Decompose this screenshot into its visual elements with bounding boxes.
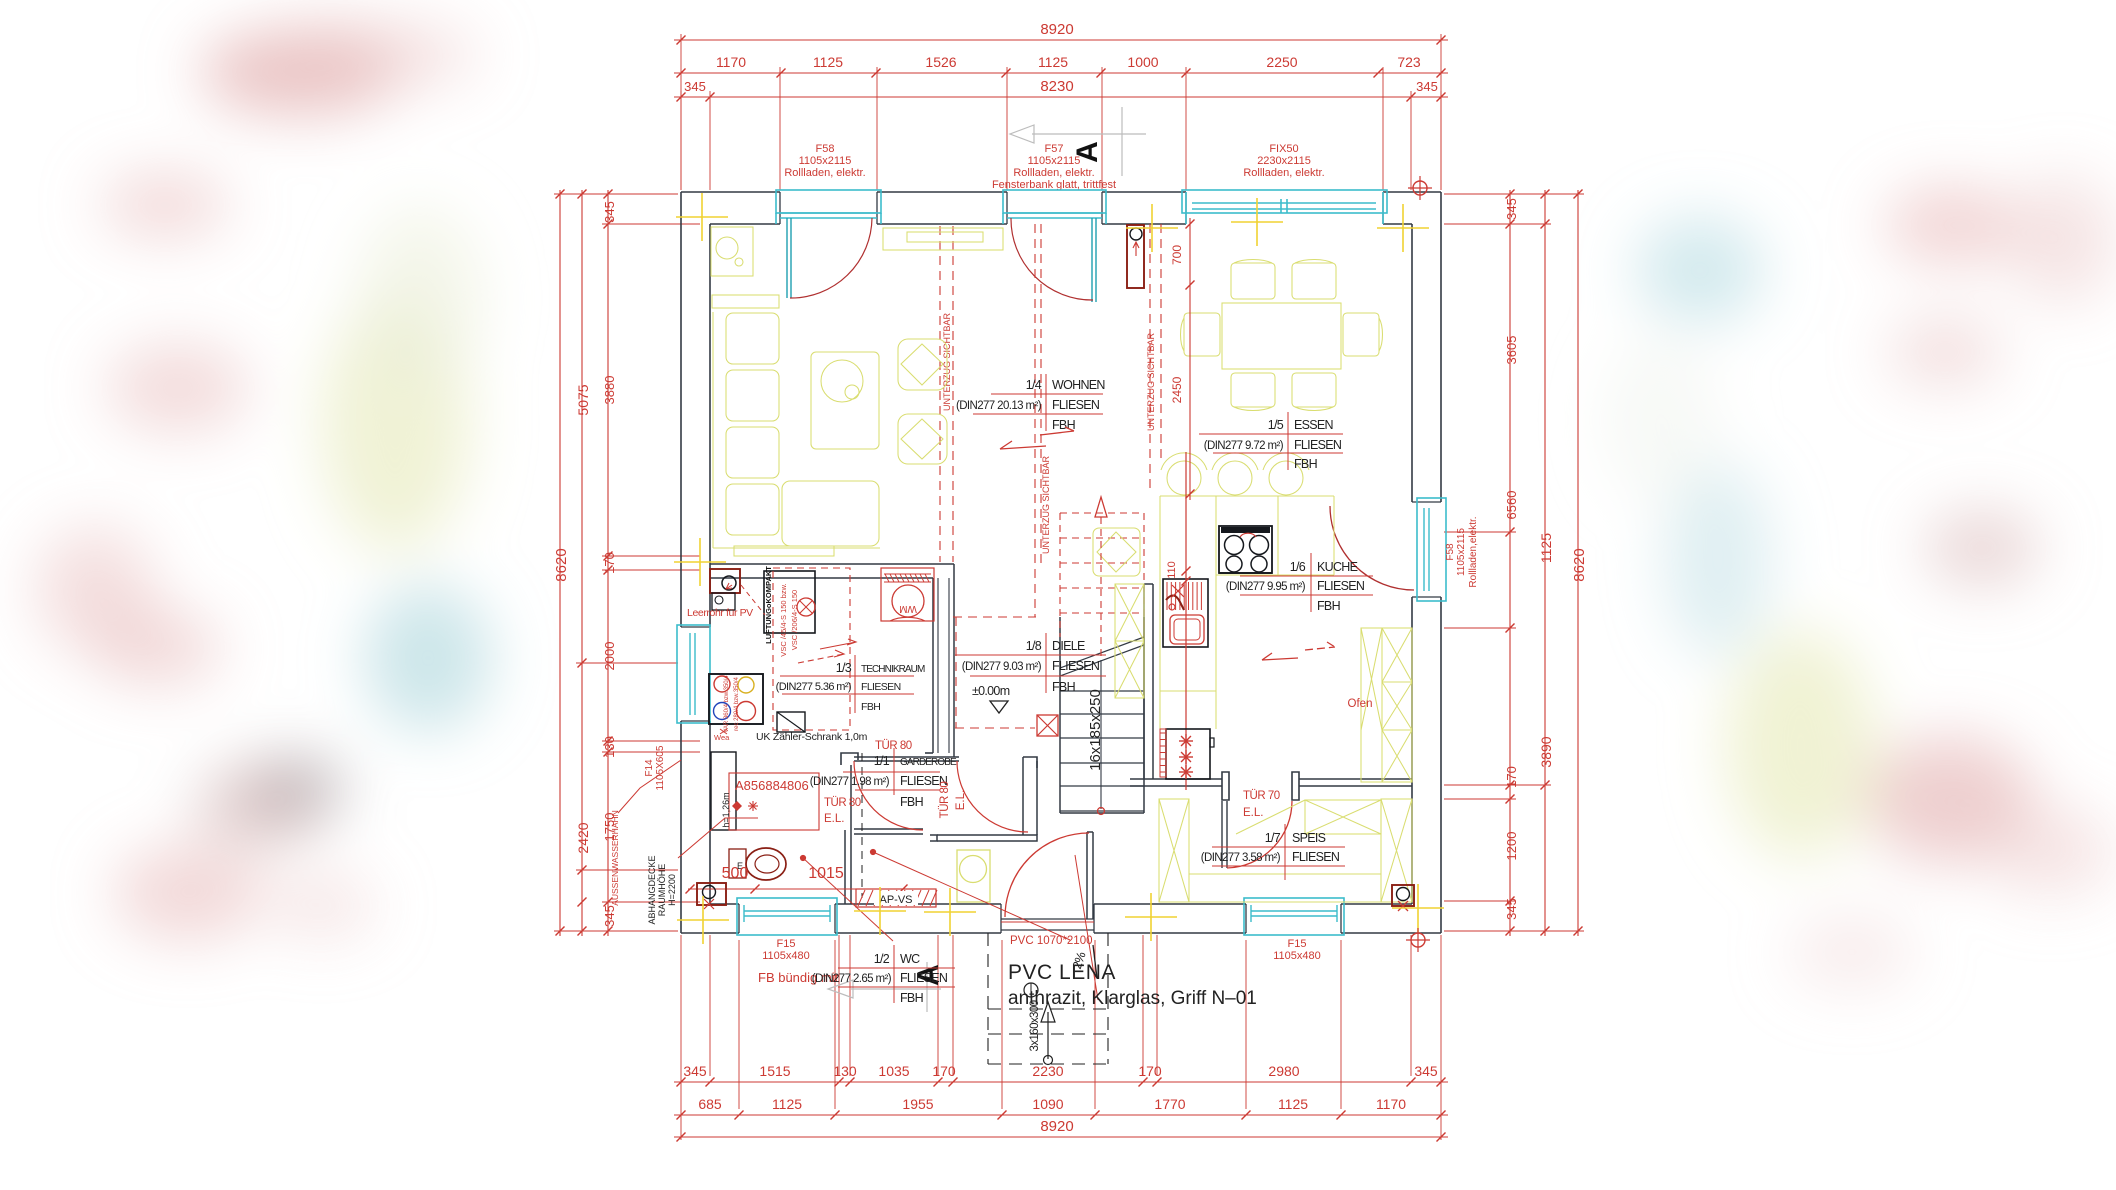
svg-text:3890: 3890 <box>1538 736 1554 767</box>
svg-text:TÜR 70: TÜR 70 <box>1243 790 1280 802</box>
svg-text:(DIN277 9.95 m²): (DIN277 9.95 m²) <box>1226 581 1306 593</box>
svg-text:GARDEROBE: GARDEROBE <box>900 757 957 768</box>
svg-text:2230: 2230 <box>1032 1063 1063 1079</box>
svg-text:110: 110 <box>1166 561 1178 579</box>
svg-text:1955: 1955 <box>902 1096 933 1112</box>
svg-text:TECHNIKRAUM: TECHNIKRAUM <box>861 664 925 675</box>
svg-text:Rollladen,elektr.: Rollladen,elektr. <box>1468 516 1479 587</box>
tv sideboard top wall <box>883 228 1003 250</box>
svg-text:FLIESEN: FLIESEN <box>1052 398 1100 412</box>
heat pump unit <box>709 674 763 724</box>
interior wall garderobe/diele <box>1022 757 1024 835</box>
interior wall vestibule top <box>937 834 1028 836</box>
svg-text:5075: 5075 <box>575 384 591 415</box>
svg-text:FLIESEN: FLIESEN <box>900 971 948 985</box>
svg-text:1125: 1125 <box>1538 533 1554 563</box>
svg-text:1/4: 1/4 <box>1026 378 1042 392</box>
svg-text:FLIESEN: FLIESEN <box>1052 659 1100 673</box>
svg-text:130: 130 <box>602 736 617 758</box>
stair outline <box>1059 617 1061 813</box>
red fixture label box <box>729 773 819 830</box>
sofa back line <box>712 312 714 548</box>
dining chair left <box>1184 313 1220 356</box>
svg-text:8620: 8620 <box>553 548 570 581</box>
svg-text:F58: F58 <box>1445 543 1456 561</box>
svg-text:1105x2115: 1105x2115 <box>799 155 852 167</box>
WC door leaf open <box>854 828 923 830</box>
svg-text:Rollladen, elektr.: Rollladen, elektr. <box>1243 167 1324 179</box>
sink red cross <box>1172 585 1184 597</box>
svg-text:1200: 1200 <box>1504 832 1519 861</box>
armchair 1 <box>898 339 947 390</box>
dimension line left 8620 <box>559 190 561 936</box>
garderobe-diele door swing arc <box>957 761 1028 832</box>
svg-text:F58: F58 <box>816 143 835 155</box>
svg-text:Rollladen, elektr.: Rollladen, elektr. <box>1013 167 1094 179</box>
svg-text:345: 345 <box>1416 79 1438 94</box>
dimension line right segments <box>1509 190 1511 936</box>
dimension line bottom segments row2 <box>674 1114 1448 1116</box>
stair upper flight dashed <box>1059 513 1061 637</box>
svg-text:FBH: FBH <box>861 701 880 713</box>
svg-text:1090: 1090 <box>1032 1096 1063 1112</box>
window F58 right wall (kitchen door-window) <box>1417 498 1446 601</box>
svg-text:345: 345 <box>683 1063 707 1079</box>
unterzug dashed right <box>1149 224 1151 491</box>
svg-text:1515: 1515 <box>759 1063 790 1079</box>
svg-text:1105x480: 1105x480 <box>1273 950 1321 962</box>
svg-text:Wea: Wea <box>714 733 730 742</box>
svg-text:130: 130 <box>833 1063 857 1079</box>
svg-text:(DIN277 1.98 m²): (DIN277 1.98 m²) <box>810 776 890 788</box>
svg-text:(DIN277 20.13 m²): (DIN277 20.13 m²) <box>956 400 1042 412</box>
speis shelf left <box>1159 799 1189 902</box>
svg-text:KUCHE: KUCHE <box>1317 560 1358 574</box>
svg-text:WM: WM <box>899 603 917 614</box>
exterior wall top outer <box>681 191 780 193</box>
meter cabinet small box <box>777 712 805 732</box>
floor drain bottom-left <box>697 883 726 905</box>
svg-text:1000: 1000 <box>1127 54 1158 70</box>
kitchen direction arrows <box>1262 653 1298 660</box>
dimension line left 5075/2420 <box>581 190 583 936</box>
stove <box>1219 526 1272 573</box>
speis door swing arc TUER70 <box>1227 801 1292 868</box>
window F15 bottom-right <box>1244 898 1344 935</box>
svg-text:LUFTUNGoKOMPAKT: LUFTUNGoKOMPAKT <box>764 566 773 644</box>
WC dashed axis line <box>861 753 863 898</box>
svg-text:(DIN277 2.65 m²): (DIN277 2.65 m²) <box>812 973 892 985</box>
svg-text:(DIN277 3.58 m²): (DIN277 3.58 m²) <box>1201 852 1281 864</box>
svg-text:FLIESEN: FLIESEN <box>1292 850 1340 864</box>
axis cross marks <box>676 216 728 218</box>
stair cut line <box>1060 645 1144 676</box>
garderobe door leaf (strikethrough line) <box>854 756 959 758</box>
coffee table <box>811 352 879 449</box>
hall wardrobe X-cabinet next to stair <box>1115 584 1144 698</box>
dining chairs bottom <box>1231 373 1275 407</box>
window F58 top-left <box>776 190 881 213</box>
svg-text:345: 345 <box>1504 898 1519 920</box>
svg-text:E.L.: E.L. <box>1243 807 1263 819</box>
sofa chaise <box>782 481 879 546</box>
kitchen counter lines <box>1160 495 1334 497</box>
dimension line left segments <box>607 190 609 936</box>
dining table <box>1222 303 1341 369</box>
svg-text:±0.00m: ±0.00m <box>972 684 1010 698</box>
svg-text:TÜR 80: TÜR 80 <box>824 797 861 809</box>
svg-text:FBH: FBH <box>1317 599 1341 613</box>
svg-text:3605: 3605 <box>1504 336 1519 365</box>
red leader door slope <box>1075 855 1098 1000</box>
svg-text:A856884806: A856884806 <box>735 778 809 793</box>
svg-text:FBH: FBH <box>900 795 924 809</box>
svg-text:700: 700 <box>1170 245 1184 265</box>
toilet <box>729 849 746 878</box>
svg-text:345: 345 <box>1414 1063 1438 1079</box>
kamin stove living corner <box>711 227 753 276</box>
svg-text:2450: 2450 <box>1170 376 1184 403</box>
svg-text:Fensterbank glatt, trittfest: Fensterbank glatt, trittfest <box>992 179 1116 191</box>
svg-text:Rollladen, elektr.: Rollladen, elektr. <box>784 167 865 179</box>
entrance threshold <box>1001 918 1094 920</box>
svg-text:1170: 1170 <box>1376 1096 1406 1112</box>
svg-text:F57: F57 <box>1045 143 1064 155</box>
svg-text:FBH: FBH <box>900 991 924 1005</box>
svg-text:PVC LENA: PVC LENA <box>1008 961 1116 984</box>
exterior wall bottom inner <box>710 903 739 905</box>
svg-text:3880: 3880 <box>602 376 617 405</box>
svg-text:ESSEN: ESSEN <box>1294 418 1334 432</box>
window F15 bottom-left <box>737 898 837 935</box>
svg-text:1/2: 1/2 <box>874 952 890 966</box>
survey crosshair top-right <box>1413 181 1427 195</box>
svg-text:UK Zähler-Schrank 1,0m: UK Zähler-Schrank 1,0m <box>756 731 868 743</box>
dimension line bottom 8920 <box>674 1136 1448 1138</box>
svg-text:(DIN277 9.03 m²): (DIN277 9.03 m²) <box>962 661 1042 673</box>
svg-text:2420: 2420 <box>575 822 591 853</box>
section mark A bottom <box>851 988 941 990</box>
stair walk line <box>1100 660 1102 809</box>
small meter box below <box>712 593 735 610</box>
interior wall living/technik <box>710 563 954 565</box>
interior wall technik bottom + garderobe door jambs <box>841 753 858 765</box>
svg-text:F15: F15 <box>777 938 796 950</box>
exterior wall left inner <box>709 224 711 627</box>
svg-text:H=2200: H=2200 <box>667 874 677 906</box>
svg-text:1035: 1035 <box>878 1063 909 1079</box>
window FIX50 top-right <box>1182 190 1387 213</box>
svg-text:1/3: 1/3 <box>836 661 852 675</box>
kitchen stools <box>1167 461 1201 495</box>
wall vent box <box>1127 225 1144 288</box>
svg-text:FLIESEN: FLIESEN <box>1294 438 1342 452</box>
exterior wall right inner <box>1411 224 1413 502</box>
speis shelf right column <box>1381 799 1412 902</box>
dining chair right <box>1343 313 1379 356</box>
svg-text:VAR 360/4 bzw.350/4: VAR 360/4 bzw.350/4 <box>724 675 730 733</box>
svg-text:ABHANGDECKE: ABHANGDECKE <box>647 855 657 924</box>
svg-text:WOHNEN: WOHNEN <box>1052 378 1105 392</box>
svg-text:16x185x250: 16x185x250 <box>1087 689 1104 771</box>
svg-text:FBH: FBH <box>1294 457 1318 471</box>
kitchen door-window swing arc <box>1330 506 1414 590</box>
washing machine WM <box>881 568 934 621</box>
sideboard left wall <box>712 295 779 308</box>
kitchen axis red line + 110 dim <box>1185 452 1187 790</box>
svg-text:FLIESEN: FLIESEN <box>861 681 901 693</box>
svg-text:h=1,26m: h=1,26m <box>721 792 731 827</box>
svg-text:WC: WC <box>900 952 920 966</box>
wohnen arrows <box>1000 441 1046 449</box>
vestibule washbasin <box>957 850 990 902</box>
red dashed leader corner <box>741 585 765 615</box>
svg-text:170: 170 <box>602 552 617 574</box>
exterior wall top inner <box>710 223 780 225</box>
dishwasher asterisks <box>1186 740 1193 742</box>
svg-text:rec 280/4 bzw.350/4: rec 280/4 bzw.350/4 <box>734 676 740 730</box>
faucet <box>1166 595 1184 610</box>
AP-VS hatched duct <box>856 889 936 907</box>
svg-text:2230x2115: 2230x2115 <box>1257 155 1311 167</box>
dim 700 + 2450 vertical <box>1189 218 1191 500</box>
svg-text:1170: 1170 <box>716 54 746 70</box>
svg-text:AUSSENWASSERHAHN: AUSSENWASSERHAHN <box>610 810 620 906</box>
ventilation unit dashed outline <box>773 568 850 730</box>
svg-text:AP-VS: AP-VS <box>879 894 912 906</box>
survey crosshair bottom-right <box>1411 933 1425 947</box>
svg-text:1105x480: 1105x480 <box>762 950 810 962</box>
svg-text:685: 685 <box>698 1096 722 1112</box>
svg-text:1125: 1125 <box>1278 1096 1308 1112</box>
svg-text:2980: 2980 <box>1268 1063 1299 1079</box>
porch dashed outline <box>987 933 989 1064</box>
ventilation unit box <box>764 571 815 633</box>
svg-text:1125: 1125 <box>813 54 843 70</box>
svg-text:345: 345 <box>602 905 617 927</box>
svg-text:TÜR 80: TÜR 80 <box>939 782 951 819</box>
svg-text:Leerrohr für PV: Leerrohr für PV <box>687 607 753 619</box>
svg-text:E.L.: E.L. <box>824 813 844 825</box>
svg-text:(DIN277 5.36 m²): (DIN277 5.36 m²) <box>776 681 851 693</box>
dishwasher <box>1166 729 1210 779</box>
svg-text:FLIESEN: FLIESEN <box>1317 579 1365 593</box>
interior wall WC right <box>844 830 846 904</box>
speis drain symbol bottom right <box>1392 885 1414 906</box>
entrance door swing arc <box>1005 833 1089 917</box>
svg-text:F15: F15 <box>1288 938 1307 950</box>
svg-text:1/7: 1/7 <box>1265 831 1281 845</box>
window F58 door leaf <box>786 218 788 298</box>
svg-text:1/5: 1/5 <box>1268 418 1284 432</box>
svg-text:1/8: 1/8 <box>1026 639 1042 653</box>
red supply air arrows <box>798 654 844 663</box>
svg-text:723: 723 <box>1397 54 1421 70</box>
section mark A top <box>1032 133 1146 135</box>
svg-text:345: 345 <box>684 79 706 94</box>
svg-text:8620: 8620 <box>1571 548 1588 581</box>
svg-text:1105x2115: 1105x2115 <box>1456 528 1467 576</box>
svg-text:1/6: 1/6 <box>1290 560 1306 574</box>
interior wall technik right / shaft <box>932 578 934 753</box>
window F57 swing arc <box>1011 218 1093 300</box>
window F58 swing arc <box>790 218 872 298</box>
dimension line top 8230 <box>674 96 1448 98</box>
svg-text:A: A <box>1071 141 1104 163</box>
svg-text:170: 170 <box>1138 1063 1162 1079</box>
svg-text:(DIN277 9.72 m²): (DIN277 9.72 m²) <box>1204 440 1284 452</box>
svg-text:RAUMHÖHE: RAUMHÖHE <box>657 864 667 917</box>
dimension line top total 8920 <box>674 39 1448 41</box>
stair treads <box>1060 690 1144 692</box>
window F57 top-middle <box>1003 190 1106 213</box>
svg-text:8920: 8920 <box>1040 21 1073 38</box>
wall opening jamb edges <box>779 192 781 224</box>
svg-text:UNTERZUG SICHTBAR: UNTERZUG SICHTBAR <box>1146 333 1156 432</box>
svg-text:1125: 1125 <box>772 1096 802 1112</box>
svg-text:E.L.: E.L. <box>955 790 967 810</box>
svg-text:1526: 1526 <box>925 54 956 70</box>
armchair 2 <box>898 414 947 464</box>
entrance door leaf <box>1086 832 1088 919</box>
dimension line bottom segments row1 <box>674 1081 1448 1083</box>
svg-text:FBH: FBH <box>1052 680 1076 694</box>
unterzug dashed left <box>1034 224 1036 617</box>
witness extension lines <box>680 34 682 190</box>
svg-text:VSC /45/4-S 150 bzw.: VSC /45/4-S 150 bzw. <box>779 583 788 656</box>
svg-text:8920: 8920 <box>1040 1118 1073 1135</box>
red leader entrance <box>871 850 876 855</box>
svg-text:170: 170 <box>932 1063 956 1079</box>
svg-text:UNTERZUG SICHTBAR: UNTERZUG SICHTBAR <box>1041 456 1051 555</box>
red leader to WC label <box>801 856 806 861</box>
speis door leaf <box>1221 801 1223 868</box>
speis shelf bottom <box>1189 873 1381 875</box>
svg-text:2250: 2250 <box>1266 54 1297 70</box>
svg-text:8230: 8230 <box>1040 78 1073 95</box>
unterzug dashed living/technik beam <box>939 226 941 562</box>
red X box symbol <box>1037 715 1058 736</box>
porch steps arrow <box>1047 1012 1049 1059</box>
svg-text:Ofen: Ofen <box>1348 698 1373 710</box>
WC vanity cabinet <box>711 752 736 830</box>
svg-text:2000: 2000 <box>602 642 617 671</box>
dimension line top segments <box>674 72 1448 74</box>
sink unit <box>1163 579 1208 647</box>
corner electrical box <box>710 569 740 593</box>
dining chairs top <box>1231 263 1275 299</box>
exterior wall right outer <box>1440 192 1442 502</box>
interior wall kitchen/hall <box>1143 584 1145 779</box>
svg-text:anthrazit, Klarglas, Griff: anthrazit, Klarglas, Griff N–01 <box>1008 988 1257 1009</box>
tall cabinet column kitchen right <box>1361 628 1412 782</box>
svg-text:1105X605: 1105X605 <box>655 745 666 790</box>
svg-text:1/1: 1/1 <box>874 754 890 768</box>
interior wall speis top <box>1130 778 1222 780</box>
sofa cushions <box>726 313 779 364</box>
svg-text:PVC 1070*2100: PVC 1070*2100 <box>1010 935 1092 947</box>
svg-text:1125: 1125 <box>1038 54 1068 70</box>
svg-text:SPEIS: SPEIS <box>1292 831 1326 845</box>
svg-text:345: 345 <box>1504 198 1519 220</box>
stair landing pad <box>1093 528 1140 576</box>
technik door swing arc <box>854 761 923 830</box>
window F14 left wall <box>677 625 710 723</box>
svg-text:F14: F14 <box>644 759 655 777</box>
exterior wall bottom outer <box>681 932 739 934</box>
vent pipe circle <box>797 598 815 616</box>
svg-text:170: 170 <box>1504 766 1519 788</box>
svg-text:FIX50: FIX50 <box>1269 143 1298 155</box>
svg-text:500: 500 <box>722 865 749 882</box>
dimension line right 8620 <box>1577 190 1579 936</box>
window F57 door leaf <box>1091 218 1093 302</box>
svg-text:DIELE: DIELE <box>1052 639 1085 653</box>
dimension line right 6560/3890 <box>1544 190 1546 936</box>
svg-text:1770: 1770 <box>1154 1096 1185 1112</box>
svg-text:TÜR 80: TÜR 80 <box>875 740 912 752</box>
exterior wall left outer <box>680 192 682 627</box>
svg-text:VSC /206/4-S 150: VSC /206/4-S 150 <box>790 590 799 650</box>
svg-text:6560: 6560 <box>1504 491 1519 520</box>
speis shelf top-right X <box>1305 800 1381 834</box>
svg-text:345: 345 <box>602 201 617 223</box>
diele dashed beam lines <box>953 616 1036 618</box>
